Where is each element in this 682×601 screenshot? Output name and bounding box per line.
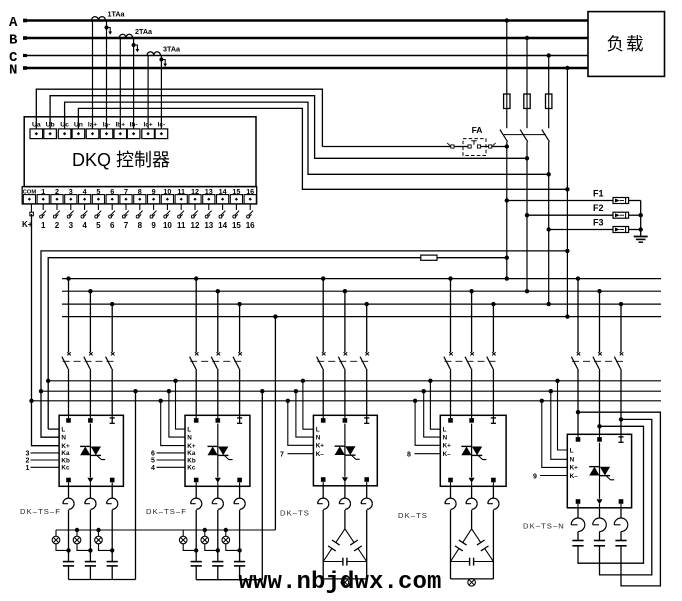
svg-text:16: 16 [246, 221, 255, 230]
svg-text:F2: F2 [593, 203, 604, 213]
thyristor module U5 DK-TS [440, 415, 506, 486]
wire feeder 3 phase A [321, 276, 325, 352]
svg-text:DK–TS–N: DK–TS–N [523, 522, 565, 531]
wire cap C5c return wrap [578, 412, 660, 586]
wire feeder 1 phase A [66, 276, 70, 352]
reactor L3a L3b L3c under module U4 [318, 486, 373, 510]
svg-text:6: 6 [151, 451, 155, 458]
svg-text:Ic+: Ic+ [143, 121, 152, 128]
switch K5 3-pole [571, 352, 625, 369]
svg-text:14: 14 [219, 187, 227, 196]
svg-text:Kb: Kb [61, 457, 70, 464]
label DK-TS-F module U3 [146, 507, 187, 516]
wire feeder 1 phase B [88, 289, 92, 352]
svg-text:K+: K+ [570, 465, 579, 472]
svg-text:N: N [187, 434, 192, 441]
wire phase A line [23, 19, 588, 23]
label DK-TS-F module U2 [20, 507, 61, 516]
bus phase B distribution [62, 290, 661, 292]
lamp HL2a HL2b HL2c module U3 [179, 528, 239, 551]
svg-text:15: 15 [232, 221, 241, 230]
wire L control feed [46, 258, 507, 429]
wire module U3 outputs [194, 510, 242, 562]
svg-text:Kc: Kc [61, 465, 70, 472]
svg-text:6: 6 [110, 187, 114, 196]
wire feeder 5 phase B [597, 289, 601, 352]
wire feeder 2 phase B [216, 289, 220, 352]
svg-text:12: 12 [191, 221, 200, 230]
svg-text:8: 8 [407, 452, 411, 459]
wire feeder 3 phase C [365, 302, 369, 352]
svg-text:K–: K– [316, 451, 325, 458]
wire feeder 1 phase C [110, 302, 114, 352]
svg-text:Ka: Ka [61, 450, 70, 457]
svg-text:5: 5 [151, 458, 155, 465]
switch K3 3-pole [317, 352, 372, 369]
wire feeder 5 phase A [576, 276, 580, 352]
svg-text:13: 13 [205, 187, 213, 196]
svg-text:DKQ 控制器: DKQ 控制器 [72, 150, 170, 170]
CT 2TAa on phase B [119, 27, 153, 129]
bus neutral distribution [62, 316, 661, 318]
svg-text:7: 7 [124, 221, 129, 230]
reactor L5a L5b L5c under module U6 [571, 508, 628, 532]
svg-text:3: 3 [26, 451, 30, 458]
controller bottom terminal strip COM 1-16 [22, 187, 257, 204]
wire feeder 2 phase C [237, 302, 241, 352]
svg-text:K+: K+ [187, 443, 196, 450]
controller output connector symbols K+ 1-16 [22, 204, 255, 230]
wire control taps module U5 [413, 379, 440, 446]
svg-text:15: 15 [232, 187, 240, 196]
wire control stub 8 to module U5 [407, 452, 440, 459]
wire feeder 3 phase B lower [344, 369, 346, 416]
svg-text:L: L [187, 426, 191, 433]
switch K2 3-pole [190, 352, 245, 369]
svg-text:5: 5 [96, 221, 101, 230]
wire cap C5a return wrap [578, 426, 644, 563]
thyristor module U2 DK-TS-F [59, 415, 123, 486]
wire Ua sense to FA line [36, 89, 322, 146]
svg-text:Ia+: Ia+ [88, 121, 97, 128]
wire Ub sense to phase B drop [50, 96, 529, 161]
thyristor module U6 DK-TS-N [567, 434, 631, 508]
wire K+ common feed [29, 214, 59, 446]
wire control taps module U3 [159, 379, 186, 446]
switch K4 3-pole [444, 352, 498, 369]
svg-text:9: 9 [151, 221, 156, 230]
wire control taps module U4 [286, 379, 314, 446]
svg-text:www.nbjdwx.com: www.nbjdwx.com [239, 569, 442, 596]
wire phase C drop [547, 53, 551, 94]
CT 3TAa on phase C [147, 45, 181, 129]
svg-text:11: 11 [177, 187, 185, 196]
reactor L2a L2b L2c under module U3 [191, 486, 246, 509]
svg-text:L: L [61, 426, 65, 433]
svg-text:1: 1 [26, 465, 30, 472]
svg-text:14: 14 [218, 221, 227, 230]
svg-text:2TAa: 2TAa [135, 27, 153, 36]
wire module U6 feeder taps [576, 410, 623, 428]
wire N feed module U2 caps [133, 389, 137, 580]
node B label [9, 33, 18, 49]
svg-text:16: 16 [246, 187, 254, 196]
svg-text:4: 4 [82, 221, 87, 230]
wire phase C drop lower [547, 142, 551, 306]
svg-text:3TAa: 3TAa [163, 45, 181, 54]
wire lamp supply line from neutral bus [56, 314, 278, 530]
wire feeder 4 phase A lower [450, 369, 452, 416]
bus N control [41, 390, 661, 392]
svg-text:7: 7 [280, 452, 284, 459]
svg-text:L: L [316, 427, 320, 434]
svg-text:L: L [570, 447, 574, 454]
fuse FU1 on phase A drop [504, 94, 510, 109]
wire phase A drop [505, 18, 509, 94]
svg-text:K+: K+ [316, 443, 325, 450]
breaker QF pole C [542, 109, 550, 142]
wire phase B line [23, 36, 588, 40]
wire neutral drop [565, 66, 569, 319]
svg-text:DK–TS–F: DK–TS–F [20, 507, 61, 516]
svg-text:COM: COM [23, 190, 37, 196]
svg-text:2: 2 [55, 221, 60, 230]
wire N feed module U3 caps [260, 389, 264, 580]
wire feeder 5 phase A lower [577, 369, 579, 435]
wire feeder 3 phase C lower [366, 369, 368, 416]
wire feeder 1 phase C lower [111, 369, 113, 416]
svg-text:9: 9 [152, 187, 156, 196]
wire feeder 2 phase B lower [217, 369, 219, 416]
svg-text:Ic-: Ic- [158, 121, 166, 128]
svg-text:3: 3 [69, 187, 73, 196]
wire phase B drop lower [525, 142, 529, 294]
svg-text:N: N [570, 457, 575, 464]
svg-text:DK–TS: DK–TS [280, 509, 310, 518]
wire phase A drop lower [505, 142, 509, 281]
capacitor delta bank C3 with lamp HL3 [323, 510, 367, 586]
wire Un sense to neutral drop [78, 108, 569, 191]
svg-text:K–: K– [570, 473, 579, 480]
svg-text:9: 9 [533, 474, 537, 481]
svg-text:Kb: Kb [187, 457, 196, 464]
svg-text:4: 4 [151, 465, 155, 472]
label DK-TS-N module U6 [523, 522, 565, 531]
breaker QF pole A [500, 109, 508, 142]
load box 负载 [588, 12, 665, 77]
svg-text:Ib-: Ib- [130, 121, 138, 128]
svg-text:A: A [9, 15, 18, 31]
reactor L4a L4b L4c under module U5 [445, 486, 499, 509]
svg-text:5: 5 [96, 187, 100, 196]
bus L control [48, 380, 661, 382]
svg-text:N: N [61, 434, 66, 441]
wire feeder 2 phase A lower [195, 369, 197, 416]
fuse FU4 on L control feed [421, 255, 437, 260]
svg-text:11: 11 [177, 221, 186, 230]
watermark www.nbjdwx.com [239, 569, 442, 596]
controller U1 DKQ box [24, 117, 256, 187]
wire control stubs 3 2 1 to module U2 [26, 451, 60, 472]
wire cap C5b return wrap [600, 419, 652, 575]
wire feeder 2 phase A [194, 276, 198, 352]
svg-text:L: L [443, 427, 447, 434]
wire feeder 3 phase B [343, 289, 347, 352]
svg-text:13: 13 [204, 221, 213, 230]
wire arrester common [640, 201, 642, 237]
bus phase A distribution [62, 278, 661, 280]
svg-text:K+: K+ [443, 443, 452, 450]
svg-text:10: 10 [163, 221, 172, 230]
wire phase C line [23, 54, 588, 57]
svg-text:1: 1 [41, 187, 45, 196]
wire module U2 outputs [66, 510, 114, 562]
controller top terminal strip Ua-Ic- [30, 121, 168, 138]
bus phase C distribution [62, 303, 661, 305]
svg-text:10: 10 [163, 187, 171, 196]
wire feeder 5 phase B lower [599, 369, 601, 435]
capacitor C5a C5b C5c [572, 532, 626, 546]
wire feeder 4 phase B lower [471, 369, 473, 416]
svg-text:Ia-: Ia- [103, 121, 111, 128]
wire feeder 5 phase C [619, 302, 623, 352]
ground [634, 237, 648, 243]
wire feeder 1 phase B lower [89, 369, 91, 416]
thyristor module U3 DK-TS-F [185, 415, 250, 486]
svg-text:DK–TS–F: DK–TS–F [146, 507, 187, 516]
wire feeder 4 phase C lower [492, 369, 494, 416]
arrester F1 [507, 189, 641, 204]
node A label [9, 15, 18, 31]
wire module U2 cap return rail [69, 579, 136, 581]
svg-text:F3: F3 [593, 218, 604, 228]
capacitor C2a C2b C2c [191, 562, 246, 580]
svg-text:K+: K+ [61, 443, 70, 450]
reactor L1a L1b L1c under module U2 [63, 486, 118, 509]
breaker QF linkage bar [504, 134, 546, 136]
svg-text:N: N [316, 434, 321, 441]
capacitor C1a C1b C1c [63, 562, 118, 580]
capacitor delta bank C4 with lamp HL4 [451, 510, 494, 586]
thyristor module U4 DK-TS [313, 415, 377, 486]
wire control taps module U6 [540, 379, 568, 468]
fuse FU2 on phase B drop [524, 94, 530, 109]
switch K1 3-pole [62, 352, 117, 369]
svg-text:DK–TS: DK–TS [398, 511, 428, 520]
svg-text:F1: F1 [593, 189, 604, 199]
label DK-TS module U5 [398, 511, 428, 520]
fuse FU3 on phase C drop [546, 94, 552, 109]
wire feeder 4 phase B [469, 289, 473, 352]
wire control stub 9 to module U6 [533, 474, 567, 481]
svg-text:负载: 负载 [607, 34, 646, 54]
svg-text:Ka: Ka [187, 450, 196, 457]
svg-text:Ib+: Ib+ [116, 121, 126, 128]
wire control stub 7 to module U4 [280, 452, 313, 459]
wire feeder 4 phase A [448, 276, 452, 352]
label DK-TS module U4 [280, 509, 310, 518]
svg-text:8: 8 [138, 221, 143, 230]
wire module U3 cap return rail [196, 579, 262, 581]
node C label [9, 50, 18, 66]
wire feeder 5 phase C lower [620, 369, 622, 435]
CT 1TAa on phase A [92, 10, 126, 129]
wire Uc sense to phase C drop [65, 102, 551, 176]
svg-text:3: 3 [69, 221, 74, 230]
bus K+ control [32, 400, 662, 402]
wire neutral control feed [39, 251, 568, 437]
svg-text:FA: FA [472, 125, 483, 135]
svg-text:6: 6 [110, 221, 115, 230]
svg-text:Kc: Kc [187, 465, 196, 472]
wire control stubs 6 5 4 to module U3 [151, 451, 185, 472]
svg-text:N: N [443, 434, 448, 441]
svg-text:B: B [9, 33, 18, 49]
wire phase B drop [525, 36, 529, 94]
svg-text:8: 8 [138, 187, 142, 196]
svg-text:2: 2 [26, 458, 30, 465]
svg-text:7: 7 [124, 187, 128, 196]
lamp HL1a HL1b HL1c module U2 [52, 528, 112, 551]
arrester F3 [549, 218, 643, 233]
svg-text:K–: K– [443, 451, 452, 458]
wire phase N line [23, 66, 588, 70]
wire feeder 3 phase A lower [322, 369, 324, 416]
wire feeder 4 phase C [491, 302, 495, 352]
breaker QF pole B [520, 109, 528, 142]
svg-text:N: N [9, 63, 17, 79]
contact FA with plug connectors [322, 125, 509, 156]
arrester F2 [527, 203, 643, 218]
svg-text:2: 2 [55, 187, 59, 196]
wire feeder 1 phase A lower [68, 369, 70, 416]
svg-text:12: 12 [191, 187, 199, 196]
node N label [9, 63, 17, 79]
svg-text:4: 4 [83, 187, 87, 196]
wire feeder 2 phase C lower [239, 369, 241, 416]
svg-text:1: 1 [41, 221, 46, 230]
svg-text:1TAa: 1TAa [108, 10, 126, 19]
